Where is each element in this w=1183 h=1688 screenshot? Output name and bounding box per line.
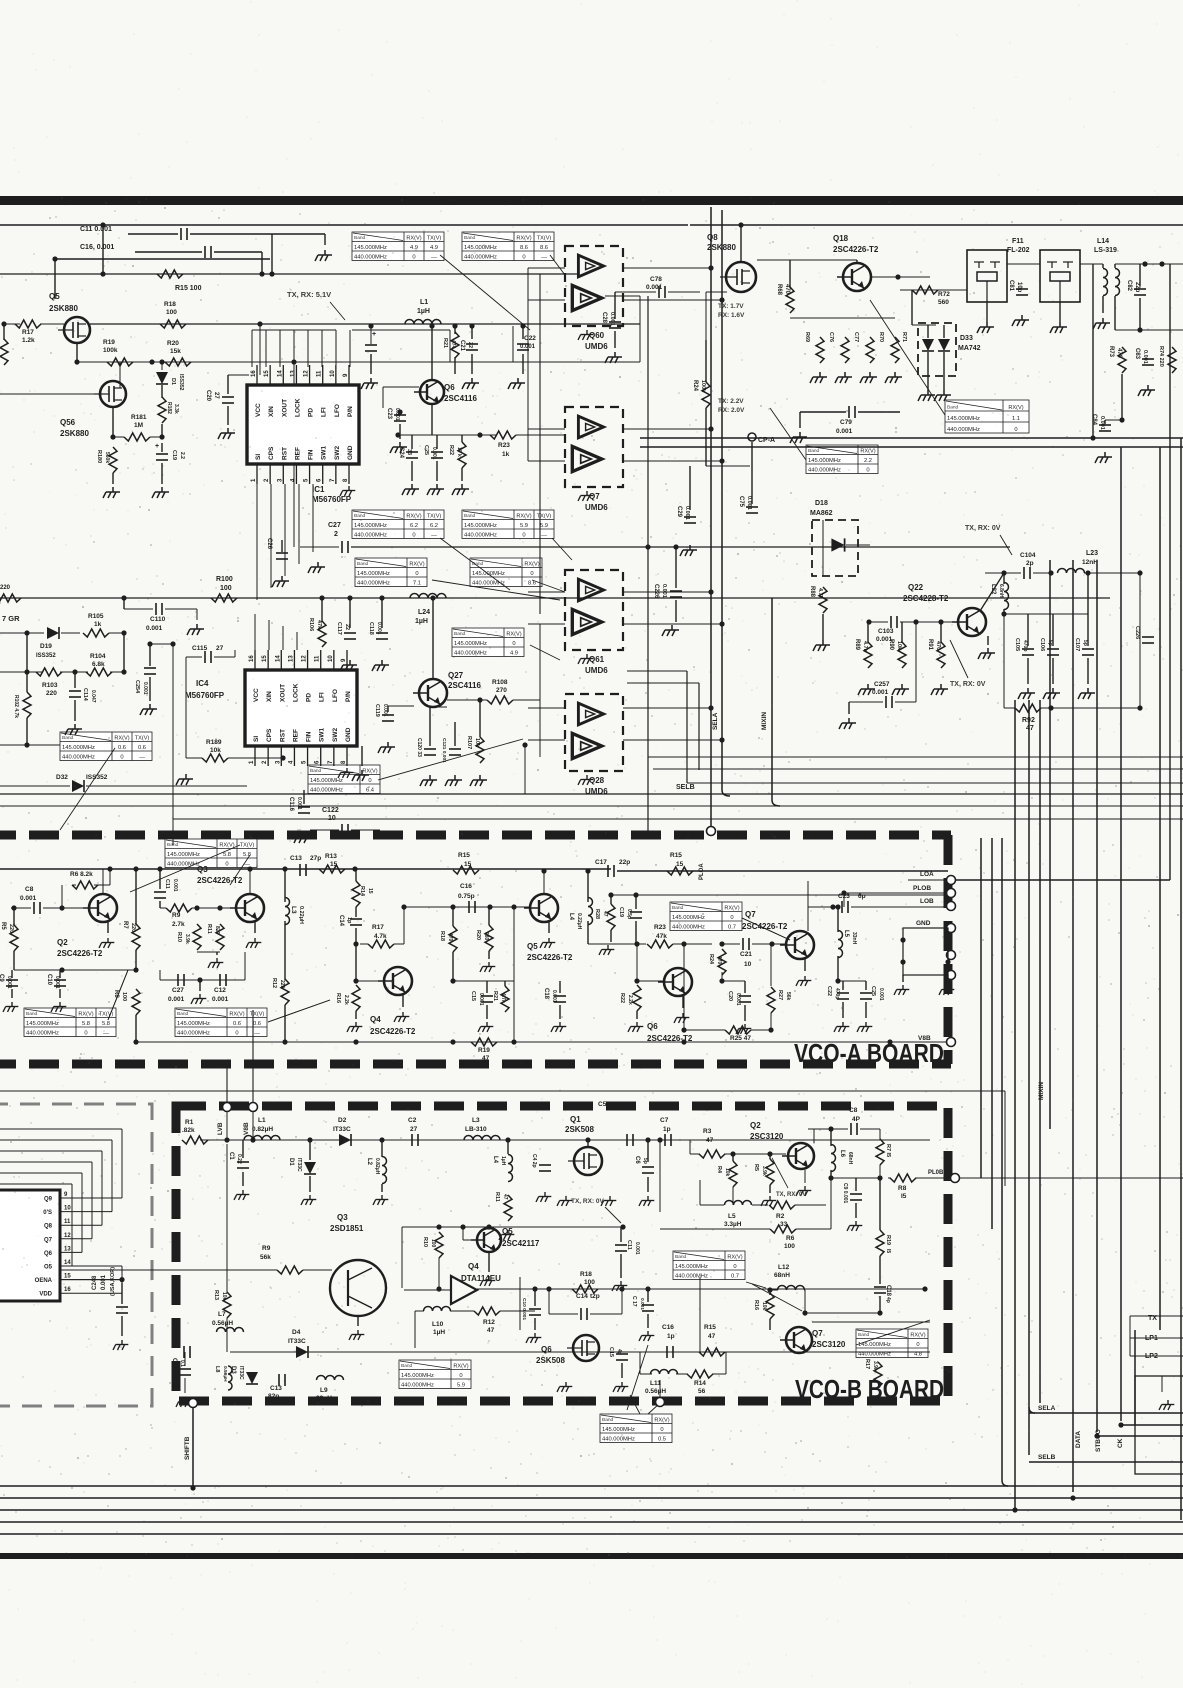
svg-text:82p: 82p xyxy=(268,1393,279,1400)
svg-text:12: 12 xyxy=(64,1233,71,1239)
svg-text:0.001: 0.001 xyxy=(872,689,889,696)
svg-text:0: 0 xyxy=(412,532,415,538)
svg-text:15: 15 xyxy=(64,1274,71,1280)
svg-text:2SC4226-T2: 2SC4226-T2 xyxy=(742,922,788,931)
svg-text:C77: C77 xyxy=(853,332,859,342)
svg-text:C22: C22 xyxy=(524,335,536,342)
svg-text:15: 15 xyxy=(676,861,684,868)
svg-text:2SC42117: 2SC42117 xyxy=(502,1239,540,1248)
svg-text:100: 100 xyxy=(584,1279,595,1286)
svg-text:L5: L5 xyxy=(843,930,849,938)
svg-text:R103: R103 xyxy=(42,682,58,689)
svg-text:CK: CK xyxy=(1117,1438,1124,1448)
svg-text:2SC4228-T2: 2SC4228-T2 xyxy=(903,594,949,603)
svg-text:RX(V): RX(V) xyxy=(406,235,421,241)
svg-text:Band: Band xyxy=(354,235,366,241)
svg-text:C104: C104 xyxy=(1020,552,1036,559)
svg-text:4.9: 4.9 xyxy=(430,245,438,251)
svg-text:0.001: 0.001 xyxy=(20,895,37,902)
svg-text:2.2: 2.2 xyxy=(179,452,185,459)
svg-text:0.5p: 0.5p xyxy=(626,909,632,919)
svg-text:C9 0.001: C9 0.001 xyxy=(842,1183,848,1204)
svg-text:TX(V): TX(V) xyxy=(135,735,150,741)
svg-text:TX, RX: 0V: TX, RX: 0V xyxy=(571,1198,605,1205)
svg-text:VDD: VDD xyxy=(39,1292,52,1298)
svg-text:C106: C106 xyxy=(1039,638,1045,651)
svg-text:47: 47 xyxy=(1026,725,1034,732)
svg-text:RST: RST xyxy=(279,729,286,742)
svg-text:R105: R105 xyxy=(88,613,104,620)
svg-text:2SC3120: 2SC3120 xyxy=(812,1340,846,1349)
svg-text:C25: C25 xyxy=(870,986,876,996)
svg-text:L1: L1 xyxy=(420,299,428,306)
svg-text:0.001: 0.001 xyxy=(172,879,178,892)
svg-text:R12: R12 xyxy=(271,978,277,988)
svg-text:0.6: 0.6 xyxy=(233,1021,241,1027)
svg-text:145.000MHz: 145.000MHz xyxy=(464,523,497,529)
svg-text:R106: R106 xyxy=(308,618,314,631)
svg-text:SELB: SELB xyxy=(1038,1454,1056,1461)
svg-text:145.000MHz: 145.000MHz xyxy=(26,1021,59,1027)
svg-text:RX(V): RX(V) xyxy=(860,448,875,454)
svg-text:R102 4.7k: R102 4.7k xyxy=(13,695,19,718)
svg-text:Band: Band xyxy=(454,631,466,637)
svg-text:M56760FP: M56760FP xyxy=(312,495,352,504)
svg-text:15k: 15k xyxy=(170,348,181,355)
svg-text:15: 15 xyxy=(464,861,472,868)
svg-text:R6: R6 xyxy=(786,1235,795,1242)
svg-text:SW2: SW2 xyxy=(332,728,339,742)
svg-text:FIN: FIN xyxy=(308,449,315,460)
svg-text:47: 47 xyxy=(602,911,608,917)
svg-text:0: 0 xyxy=(225,861,228,867)
svg-text:TX(V): TX(V) xyxy=(240,842,255,848)
svg-text:CPS: CPS xyxy=(268,446,275,460)
svg-text:FL-202: FL-202 xyxy=(1007,247,1030,254)
svg-text:10k: 10k xyxy=(896,641,902,651)
svg-text:C12: C12 xyxy=(214,987,226,994)
svg-text:IT33C: IT33C xyxy=(288,1338,306,1345)
svg-text:REF: REF xyxy=(294,447,301,460)
svg-text:14: 14 xyxy=(277,370,283,377)
svg-text:RX(V): RX(V) xyxy=(78,1011,93,1017)
svg-text:2p: 2p xyxy=(1026,560,1034,567)
svg-text:C18: C18 xyxy=(543,988,549,1000)
svg-text:Q6: Q6 xyxy=(541,1345,552,1354)
svg-text:2SC4226-T2: 2SC4226-T2 xyxy=(527,953,573,962)
svg-text:1µH: 1µH xyxy=(415,618,428,625)
svg-text:R21: R21 xyxy=(442,338,448,348)
svg-text:440.000MHz: 440.000MHz xyxy=(947,427,980,433)
svg-text:R7: R7 xyxy=(122,921,128,929)
svg-text:0.001: 0.001 xyxy=(1099,416,1105,430)
svg-text:C19: C19 xyxy=(618,907,624,917)
svg-text:10: 10 xyxy=(744,961,752,968)
svg-text:Q7: Q7 xyxy=(745,910,756,919)
svg-text:12: 12 xyxy=(304,370,310,377)
svg-text:R107: R107 xyxy=(466,736,472,749)
svg-text:560: 560 xyxy=(938,299,949,306)
svg-text:4.9: 4.9 xyxy=(510,650,518,656)
svg-text:C76: C76 xyxy=(828,332,834,342)
svg-text:C20: C20 xyxy=(727,991,733,1001)
svg-text:0.001: 0.001 xyxy=(431,447,437,460)
svg-text:L23: L23 xyxy=(1086,550,1098,557)
svg-text:SW2: SW2 xyxy=(334,446,341,460)
svg-text:47: 47 xyxy=(502,1194,508,1200)
svg-text:V8B: V8B xyxy=(243,1122,250,1135)
svg-text:R90: R90 xyxy=(888,639,894,651)
svg-text:C23: C23 xyxy=(386,408,392,420)
svg-text:Band: Band xyxy=(947,405,959,411)
svg-text:R27: R27 xyxy=(777,990,783,1000)
svg-text:(USA,KOR): (USA,KOR) xyxy=(110,1267,116,1296)
svg-text:RX(V): RX(V) xyxy=(724,905,739,911)
svg-text:440.000MHz: 440.000MHz xyxy=(472,580,505,586)
svg-text:P/N: P/N xyxy=(347,406,354,417)
svg-text:R24: R24 xyxy=(708,954,714,965)
svg-text:R4: R4 xyxy=(716,1166,722,1174)
svg-text:LB-310: LB-310 xyxy=(465,1126,487,1133)
svg-text:0.001: 0.001 xyxy=(101,1274,107,1290)
svg-text:680: 680 xyxy=(483,932,489,941)
svg-text:L3: L3 xyxy=(290,906,297,914)
svg-text:68nH: 68nH xyxy=(847,1152,853,1165)
svg-text:C1: C1 xyxy=(228,1152,234,1160)
svg-text:L3: L3 xyxy=(472,1117,480,1124)
svg-text:M56760FP: M56760FP xyxy=(185,691,225,700)
svg-text:4p: 4p xyxy=(616,1349,622,1355)
svg-text:56: 56 xyxy=(698,1388,706,1395)
svg-text:100: 100 xyxy=(430,1239,436,1248)
svg-text:0: 0 xyxy=(1014,427,1017,433)
svg-text:L6: L6 xyxy=(839,1150,845,1158)
svg-text:145.000MHz: 145.000MHz xyxy=(602,1427,635,1433)
svg-text:L22: L22 xyxy=(990,584,996,595)
svg-text:4.7k: 4.7k xyxy=(817,588,823,600)
svg-text:0: 0 xyxy=(530,571,533,577)
svg-text:RX(V): RX(V) xyxy=(516,513,531,519)
svg-text:OENA: OENA xyxy=(35,1278,53,1284)
svg-text:10k: 10k xyxy=(221,1292,227,1301)
svg-text:145.000MHz: 145.000MHz xyxy=(354,245,387,251)
svg-text:RX(V): RX(V) xyxy=(910,1332,925,1338)
svg-text:C27: C27 xyxy=(328,522,341,529)
svg-text:47: 47 xyxy=(708,1333,716,1340)
svg-text:C81: C81 xyxy=(1008,280,1014,292)
svg-text:Q9: Q9 xyxy=(44,1197,53,1203)
svg-text:DTA114EU: DTA114EU xyxy=(461,1274,501,1283)
svg-text:D1: D1 xyxy=(170,378,176,385)
svg-text:0.047: 0.047 xyxy=(90,690,96,703)
svg-text:Q18: Q18 xyxy=(833,234,849,243)
svg-text:R19: R19 xyxy=(103,339,115,346)
svg-text:L9: L9 xyxy=(320,1387,328,1394)
svg-text:UMD6: UMD6 xyxy=(585,666,608,675)
svg-text:—: — xyxy=(431,254,437,260)
svg-text:Q1: Q1 xyxy=(570,1115,581,1124)
svg-text:C27: C27 xyxy=(172,987,184,994)
svg-text:L12: L12 xyxy=(778,1264,790,1271)
svg-text:C29: C29 xyxy=(676,506,682,518)
svg-text:11: 11 xyxy=(317,370,323,377)
svg-text:Band: Band xyxy=(858,1332,870,1338)
svg-text:Q22: Q22 xyxy=(908,583,924,592)
svg-text:MA862: MA862 xyxy=(810,510,833,517)
svg-text:2SK880: 2SK880 xyxy=(60,429,89,438)
svg-text:1k: 1k xyxy=(94,621,102,628)
svg-text:R14: R14 xyxy=(694,1380,706,1387)
svg-text:0.001: 0.001 xyxy=(1142,350,1148,364)
svg-text:CPS: CPS xyxy=(266,728,273,742)
svg-text:XOUT: XOUT xyxy=(281,399,288,417)
svg-text:MIXIN: MIXIN xyxy=(761,712,768,730)
svg-text:TX(V): TX(V) xyxy=(537,235,552,241)
svg-text:Q2: Q2 xyxy=(750,1121,761,1130)
svg-text:V8B: V8B xyxy=(918,1035,931,1042)
svg-text:11: 11 xyxy=(64,1219,71,1225)
svg-text:XIN: XIN xyxy=(266,691,273,702)
svg-text:0.001: 0.001 xyxy=(54,976,60,989)
svg-text:10: 10 xyxy=(328,655,334,662)
svg-text:R21: R21 xyxy=(492,991,498,1001)
svg-text:470: 470 xyxy=(716,956,722,965)
svg-text:15: 15 xyxy=(264,370,270,377)
svg-text:C117: C117 xyxy=(336,622,342,635)
svg-text:440.000MHz: 440.000MHz xyxy=(310,787,343,793)
svg-text:4P: 4P xyxy=(852,1116,861,1123)
svg-text:R13: R13 xyxy=(325,853,337,860)
svg-text:C8: C8 xyxy=(849,1107,858,1114)
svg-text:6.2: 6.2 xyxy=(410,523,418,529)
svg-text:2SC4116: 2SC4116 xyxy=(444,394,477,403)
svg-text:0.001: 0.001 xyxy=(735,993,741,1006)
svg-text:Band: Band xyxy=(357,561,369,567)
svg-text:R23: R23 xyxy=(498,442,510,449)
svg-text:1p: 1p xyxy=(667,1333,675,1340)
svg-text:Band: Band xyxy=(401,1363,413,1369)
svg-text:RX(V): RX(V) xyxy=(362,768,377,774)
svg-text:470p: 470p xyxy=(834,988,840,999)
svg-text:LFI: LFI xyxy=(319,692,326,702)
svg-text:C6: C6 xyxy=(634,1156,640,1164)
svg-text:0.001: 0.001 xyxy=(639,1298,645,1310)
svg-text:14: 14 xyxy=(275,655,281,662)
svg-text:0: 0 xyxy=(235,1030,238,1036)
svg-text:LFO: LFO xyxy=(334,404,341,417)
svg-text:4.7k: 4.7k xyxy=(862,641,868,653)
svg-text:440.000MHz: 440.000MHz xyxy=(354,254,387,260)
svg-text:Band: Band xyxy=(177,1011,189,1017)
svg-text:1µH: 1µH xyxy=(500,1156,506,1166)
svg-text:440.000MHz: 440.000MHz xyxy=(675,1273,708,1279)
svg-text:R17: R17 xyxy=(372,924,384,931)
svg-text:SHIFTB: SHIFTB xyxy=(184,1436,191,1460)
svg-text:R104: R104 xyxy=(90,653,106,660)
svg-text:GND: GND xyxy=(345,727,352,742)
svg-text:R72: R72 xyxy=(938,291,950,298)
svg-text:220: 220 xyxy=(130,923,136,932)
svg-text:+: + xyxy=(155,443,159,450)
svg-text:27p: 27p xyxy=(310,855,321,862)
svg-text:Q7: Q7 xyxy=(812,1329,823,1338)
svg-text:5.8: 5.8 xyxy=(102,1021,110,1027)
svg-text:R22: R22 xyxy=(448,445,454,455)
svg-text:220: 220 xyxy=(279,980,285,989)
svg-text:2.2k: 2.2k xyxy=(627,995,633,1005)
svg-text:1p: 1p xyxy=(346,917,352,924)
svg-text:PLOA: PLOA xyxy=(699,863,705,880)
svg-text:TX, RX: 0V: TX, RX: 0V xyxy=(776,1192,806,1198)
svg-text:RX(V): RX(V) xyxy=(453,1363,468,1369)
svg-text:820: 820 xyxy=(214,926,220,935)
svg-text:R181: R181 xyxy=(131,414,147,421)
svg-text:SI: SI xyxy=(255,454,262,460)
svg-text:0: 0 xyxy=(660,1427,663,1433)
svg-text:2: 2 xyxy=(334,531,338,538)
svg-text:Q5: Q5 xyxy=(502,1227,513,1236)
svg-text:TX, RX: 0V: TX, RX: 0V xyxy=(965,525,1001,532)
svg-text:XIN: XIN xyxy=(268,406,275,417)
svg-text:R91: R91 xyxy=(927,639,933,651)
svg-text:33nH: 33nH xyxy=(851,932,857,945)
svg-text:C21: C21 xyxy=(459,340,465,352)
svg-text:Q7: Q7 xyxy=(589,492,600,501)
svg-text:3.3k: 3.3k xyxy=(173,404,179,414)
svg-text:TX(V): TX(V) xyxy=(427,235,442,241)
svg-text:33: 33 xyxy=(780,1221,788,1228)
svg-text:D4: D4 xyxy=(292,1329,301,1336)
svg-text:145.000MHz: 145.000MHz xyxy=(454,641,487,647)
svg-text:C257: C257 xyxy=(874,681,890,688)
svg-text:C10: C10 xyxy=(46,974,52,986)
svg-text:REF: REF xyxy=(292,729,299,742)
svg-text:440.000MHz: 440.000MHz xyxy=(808,467,841,473)
svg-text:R12: R12 xyxy=(483,1319,495,1326)
svg-text:R18: R18 xyxy=(164,301,176,308)
svg-text:D2: D2 xyxy=(338,1117,347,1124)
svg-text:Band: Band xyxy=(675,1254,687,1260)
svg-text:L8: L8 xyxy=(214,1366,220,1372)
svg-text:0.82µH: 0.82µH xyxy=(374,1158,380,1175)
svg-text:0.7: 0.7 xyxy=(728,924,736,930)
svg-text:0.001: 0.001 xyxy=(296,797,302,810)
svg-text:2SC4226-T2: 2SC4226-T2 xyxy=(370,1027,416,1036)
svg-text:0.1: 0.1 xyxy=(179,1360,185,1367)
svg-text:R24: R24 xyxy=(692,380,698,392)
svg-text:0: 0 xyxy=(512,641,515,647)
svg-text:145.000MHz: 145.000MHz xyxy=(675,1264,708,1270)
svg-text:R10: R10 xyxy=(422,1237,428,1247)
svg-text:Q5: Q5 xyxy=(49,292,60,301)
svg-text:L2: L2 xyxy=(366,1158,372,1166)
svg-text:Q6: Q6 xyxy=(647,1022,658,1031)
svg-text:22: 22 xyxy=(467,342,473,348)
svg-text:C103: C103 xyxy=(878,628,894,635)
svg-text:R15: R15 xyxy=(704,1324,716,1331)
svg-text:Q5: Q5 xyxy=(527,942,538,951)
svg-text:Q60: Q60 xyxy=(589,331,605,340)
svg-text:C14: C14 xyxy=(576,1293,588,1300)
svg-text:10k: 10k xyxy=(474,738,480,748)
svg-text:R10: R10 xyxy=(176,932,182,942)
svg-text:C110: C110 xyxy=(150,616,166,623)
svg-text:R20: R20 xyxy=(167,340,179,347)
svg-text:F11: F11 xyxy=(1012,238,1024,245)
svg-text:220: 220 xyxy=(46,690,57,697)
svg-text:10k: 10k xyxy=(761,1302,767,1311)
svg-text:C4 2p: C4 2p xyxy=(531,1154,537,1168)
svg-text:11: 11 xyxy=(315,655,321,662)
svg-text:R3: R3 xyxy=(703,1128,712,1135)
svg-text:14: 14 xyxy=(64,1260,71,1266)
svg-text:68nH: 68nH xyxy=(774,1272,790,1279)
svg-text:15: 15 xyxy=(262,655,268,662)
svg-text:Q3: Q3 xyxy=(337,1213,348,1222)
svg-text:0.001: 0.001 xyxy=(146,625,163,632)
svg-text:R74 220: R74 220 xyxy=(1158,346,1164,367)
svg-text:100: 100 xyxy=(166,309,177,316)
svg-text:D19: D19 xyxy=(40,643,52,650)
svg-text:L14: L14 xyxy=(1097,238,1109,245)
svg-text:D32: D32 xyxy=(56,774,68,781)
svg-text:RST: RST xyxy=(281,447,288,460)
svg-text:MA742: MA742 xyxy=(958,345,981,352)
svg-text:R9: R9 xyxy=(262,1245,271,1252)
svg-text:R6 8.2k: R6 8.2k xyxy=(70,871,93,878)
svg-text:C13: C13 xyxy=(290,855,302,862)
svg-text:C9: C9 xyxy=(0,974,4,982)
svg-text:C83: C83 xyxy=(1134,348,1140,360)
svg-text:Q28: Q28 xyxy=(589,776,605,785)
svg-text:R5: R5 xyxy=(0,922,6,930)
svg-text:27: 27 xyxy=(216,645,224,652)
svg-text:5.8: 5.8 xyxy=(82,1021,90,1027)
svg-text:LS-319: LS-319 xyxy=(1094,247,1117,254)
svg-text:L10: L10 xyxy=(432,1321,444,1328)
svg-text:XOUT: XOUT xyxy=(279,684,286,702)
svg-text:R15: R15 xyxy=(670,852,682,859)
svg-text:PLOB: PLOB xyxy=(913,885,931,892)
svg-text:D1: D1 xyxy=(288,1158,294,1166)
svg-text:2.2: 2.2 xyxy=(864,458,872,464)
svg-text:Q6: Q6 xyxy=(444,383,455,392)
svg-text:Band: Band xyxy=(808,448,820,454)
svg-text:2SC3120: 2SC3120 xyxy=(750,1132,784,1141)
svg-text:.82k: .82k xyxy=(182,1127,195,1134)
svg-text:470p: 470p xyxy=(1022,640,1028,651)
svg-text:Band: Band xyxy=(310,768,322,774)
svg-text:C20: C20 xyxy=(205,390,211,402)
svg-text:C11: C11 xyxy=(164,879,170,889)
svg-text:R180: R180 xyxy=(96,450,102,463)
svg-text:R88: R88 xyxy=(809,586,815,598)
svg-text:47k: 47k xyxy=(656,933,667,940)
svg-text:C15: C15 xyxy=(470,991,476,1001)
svg-text:SELA: SELA xyxy=(712,712,719,730)
svg-text:0.22µH: 0.22µH xyxy=(298,906,304,924)
svg-text:56k: 56k xyxy=(260,1254,271,1261)
svg-text:VCC: VCC xyxy=(253,688,260,702)
svg-text:SELA: SELA xyxy=(1038,1405,1056,1412)
svg-text:440.000MHz: 440.000MHz xyxy=(602,1436,635,1442)
svg-text:100k: 100k xyxy=(103,347,118,354)
svg-text:C105: C105 xyxy=(1014,638,1020,651)
svg-text:27: 27 xyxy=(213,392,219,399)
svg-text:2SK880: 2SK880 xyxy=(49,304,78,313)
svg-text:GND: GND xyxy=(916,920,931,927)
svg-text:C 17: C 17 xyxy=(631,1296,637,1307)
